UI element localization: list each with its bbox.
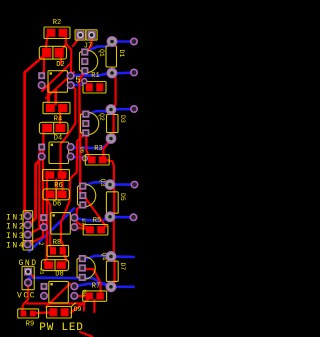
wire: GND rail (bottom layer) (29, 278, 111, 287)
svg-text:GND: GND (19, 259, 38, 268)
resistor R2 (44, 19, 70, 39)
wire: GND pad stub to rail (29, 272, 34, 277)
D5 pads (105, 180, 115, 222)
wire: opto U6 pin to via at R3 (71, 157, 85, 158)
svg-text:R9: R9 (26, 321, 34, 329)
wire: D7 bottom pad to right pad (111, 285, 134, 288)
svg-text:IN4: IN4 (6, 242, 25, 251)
wire: rail through D7 (111, 257, 115, 287)
wire: D5 bottom pad down (110, 217, 114, 256)
svg-text:VCC: VCC (17, 291, 36, 300)
optocoupler U8 (41, 281, 88, 303)
wire: opto U6 pin to IN2 (28, 158, 42, 226)
optocoupler U5 (38, 71, 74, 93)
svg-text:IN2: IN2 (6, 223, 25, 232)
wire: opto U5 pin to via at R1 (71, 82, 84, 85)
svg-text:2: 2 (37, 242, 44, 246)
wire: R4 to D4 link (59, 112, 61, 124)
wire: D2 cathode to opto U5 (42, 59, 44, 74)
wire: D5 top pad to right pad (110, 183, 135, 186)
wire: IN4 to opto U7 diagonal (bottom layer) (29, 209, 74, 252)
wire: rail to D8 (45, 172, 48, 263)
wire: D1 bottom pad down right rail (111, 73, 116, 110)
wire: D2 anode to IN1 rail (25, 56, 44, 216)
svg-text:J5: J5 (38, 268, 45, 275)
resistor R3 (85, 145, 109, 165)
svg-text:IN3: IN3 (6, 232, 25, 241)
wire: R7 to D9 cathode diagonal (71, 298, 91, 313)
D1 pads (107, 37, 117, 78)
optocoupler U6 (38, 142, 85, 164)
wire: Q4 base to D7 top pad (bottom layer) (83, 256, 111, 260)
transistor Q4 (77, 253, 108, 282)
optocoupler U7 (40, 213, 87, 235)
transistor Q3 (78, 179, 107, 209)
diode D3 (107, 115, 126, 133)
connector J7 (75, 30, 97, 51)
resistor R5 (83, 217, 108, 235)
transistor Q2 (81, 111, 106, 137)
wire: opto U5 diagonal A (42, 63, 71, 91)
wire: Q3 base to D5 top pad (bottom layer) (83, 182, 110, 186)
wire: opto U8 pin to D7 bottom pad (74, 284, 111, 287)
wire: bottom edge stub (80, 332, 92, 337)
wire: Q1 base to D1 top pad (bottom layer) (85, 43, 112, 53)
resistor R8 (47, 239, 69, 256)
resistor R7 (83, 283, 107, 302)
wire: R2 to D2 anode (46, 35, 48, 50)
via at R1 (82, 78, 87, 83)
wire: Q1 emitter down right-column vertical to Q3 (79, 72, 84, 196)
diode D2 (39, 46, 66, 69)
LED pads channel 1 (131, 38, 137, 75)
svg-text:D2: D2 (56, 61, 64, 69)
wire: rail through D5 (110, 185, 114, 217)
wire: opto U5 output down through opto U6 to R6 (61, 85, 76, 174)
wire: R6 link (61, 179, 63, 191)
wire: opto U5 diagonal B (46, 72, 74, 98)
svg-text:D6: D6 (53, 201, 61, 209)
wire: D3 top pad to right pad (111, 108, 134, 111)
wire: opto U8 pin to R7 (74, 295, 85, 297)
via at R3 (82, 156, 87, 161)
transistor Q1 (80, 48, 105, 74)
LED pads channel 3 (130, 181, 137, 220)
diode D1 (106, 46, 125, 67)
diode D5 (106, 192, 125, 213)
wire: opto U6 pin to D3 bottom pad (71, 139, 111, 148)
wire: opto U5 to R4 (54, 90, 57, 104)
diode D4 (39, 122, 68, 142)
wire: Q3 emitter to R5 left (77, 205, 85, 227)
wire: R3 down to D5 top pad (105, 160, 114, 185)
resistor R6 (43, 170, 70, 190)
wire: rail through D3 (111, 110, 114, 139)
wire: Q2 collector down left to R8/D8 (61, 133, 86, 247)
wire: D2 link down (60, 56, 62, 64)
svg-text:Q2: Q2 (98, 113, 105, 121)
diode D6 (43, 189, 70, 209)
wire: through D6 vertical (55, 180, 57, 200)
svg-text:PW LED: PW LED (39, 322, 83, 334)
LED pad channel 2 (131, 106, 137, 112)
D3 pads (106, 105, 116, 144)
svg-text:U6: U6 (78, 147, 85, 154)
svg-text:Q1: Q1 (98, 49, 105, 57)
LED D9 (47, 307, 72, 319)
svg-text:D5: D5 (119, 193, 126, 201)
svg-text:D9: D9 (74, 306, 82, 313)
wire: J7 pin 2 to Q1 (86, 37, 92, 52)
wire: R2/J7 junction down to opto U5 (66, 44, 71, 73)
wire: VCC rail to lower right (27, 304, 84, 311)
wire: opto U7 pin through D5 bottom pad to right pad (75, 217, 134, 220)
wire: opto U6 pin to IN3 (28, 147, 42, 234)
svg-text:R3: R3 (94, 145, 102, 153)
resistor R1 (83, 72, 106, 93)
diode D7 (106, 261, 125, 281)
svg-text:D7: D7 (119, 263, 126, 271)
wire: D1 top pad to right pad (112, 40, 134, 43)
wire: R2 to D2 cathode and J7 (61, 34, 66, 51)
wire: D7 top pad to right pad (111, 255, 134, 258)
wire: D4 to IN4 (28, 131, 44, 244)
svg-text:D4: D4 (54, 135, 62, 143)
svg-text:R5: R5 (93, 217, 101, 225)
diode D8 (41, 260, 68, 279)
wire: Q2 base to D3 top pad (bottom layer) (86, 110, 111, 115)
svg-text:D3: D3 (119, 115, 126, 123)
wire: R8 to D8 link (65, 255, 67, 261)
svg-text:D8: D8 (55, 271, 63, 279)
wire: opto U7 pin to R5 (75, 228, 86, 229)
svg-text:R8: R8 (53, 239, 61, 247)
svg-text:D1: D1 (118, 50, 125, 58)
wire: J7 pin 1 stub (73, 37, 80, 47)
wire: R7 down (93, 300, 95, 312)
svg-text:R7: R7 (92, 283, 100, 291)
wire: opto U8 diagonal (46, 284, 70, 308)
D9 cathode tick (71, 303, 76, 307)
resistor R9 (18, 309, 39, 329)
wire: opto U5 pin 3 to R4 (47, 86, 50, 102)
D7 pads (106, 252, 116, 292)
svg-text:IN1: IN1 (6, 213, 25, 222)
svg-text:5: 5 (75, 75, 81, 86)
wire: R9 to D9 (37, 311, 49, 314)
connector J5 GND/VCC (17, 259, 45, 300)
connector J6 IN1-IN4 (6, 211, 44, 251)
wire: D3 bottom pad to R3 (104, 139, 112, 156)
wire: opto U5 pin to D1 bottom pad and right pad (71, 73, 134, 76)
wire: Q2 collector down to R3 (86, 133, 89, 157)
wire: Q3 collector diagonal to R5 (84, 196, 106, 227)
wire: rail to R8 (46, 199, 50, 247)
svg-text:R2: R2 (53, 19, 61, 27)
wire: VCC pin down to R9 (23, 283, 29, 311)
PCB background (0, 0, 154, 337)
wire: Q4 collector to D7 bottom (86, 269, 100, 292)
resistor R4 (43, 102, 70, 123)
svg-text:R1: R1 (91, 72, 99, 80)
